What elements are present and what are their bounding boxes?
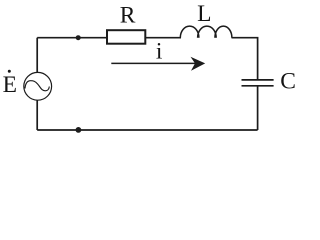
current arrow line (111, 62, 196, 64)
resistor R (107, 30, 145, 44)
node junction dot top (76, 35, 81, 40)
wire resistor to inductor (145, 37, 181, 39)
svg-text:i: i (156, 39, 163, 65)
node junction dot bottom (76, 127, 82, 133)
AC source sine wave (25, 81, 49, 91)
capacitor C plates (242, 79, 274, 81)
svg-text:E: E (3, 72, 17, 98)
wire inductor to top-right corner and down (232, 38, 258, 80)
svg-text:R: R (120, 3, 136, 29)
svg-text:C: C (280, 68, 296, 94)
current arrowhead (191, 57, 206, 71)
dot above E (8, 70, 11, 73)
wire left vertical upper (top to source) (36, 38, 38, 73)
wire left vertical lower (source to bottom) (36, 100, 38, 130)
AC source E circle (24, 72, 52, 100)
wire bottom horizontal (37, 129, 257, 131)
inductor L (180, 26, 199, 38)
svg-text:L: L (197, 1, 211, 27)
wire top-left horizontal segment (37, 37, 107, 39)
wire capacitor down to bottom-right corner (257, 86, 259, 130)
